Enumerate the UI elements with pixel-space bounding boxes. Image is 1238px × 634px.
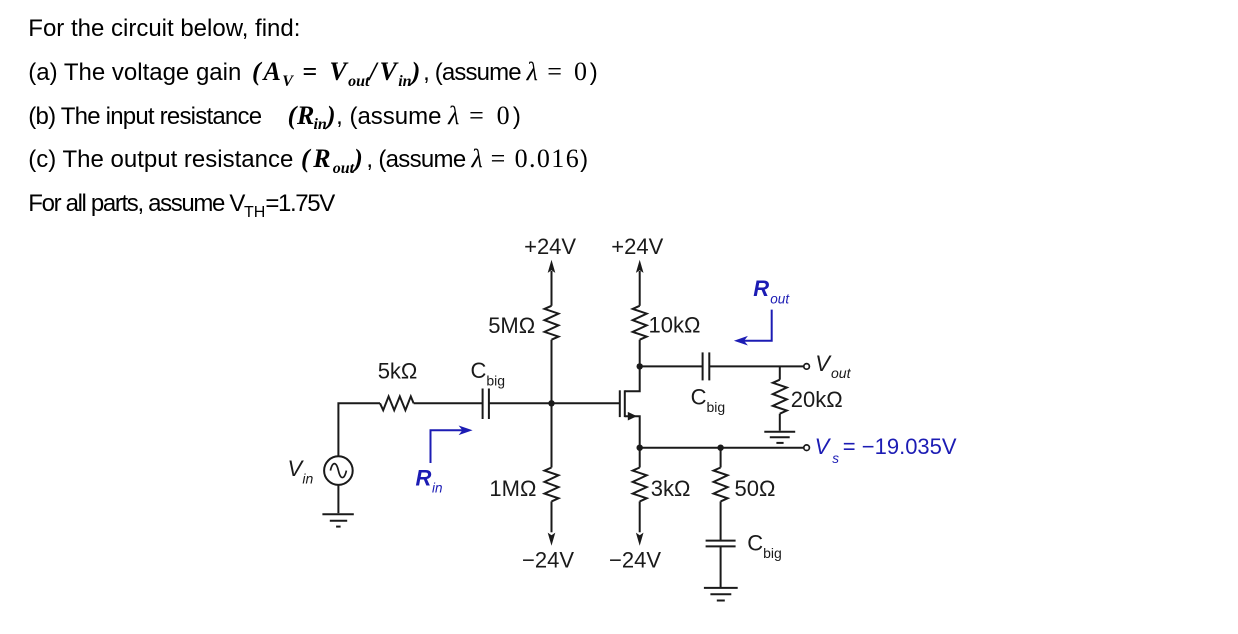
resistor 20kohm with leads: [773, 366, 787, 430]
wire Vin top to 5k resistor: [338, 403, 380, 456]
svg-text:−24V: −24V: [522, 548, 574, 573]
resistor 10kohm: [633, 306, 647, 340]
node drain: [637, 363, 643, 369]
problem statement line 5: [28, 190, 334, 227]
svg-text:50Ω: 50Ω: [735, 476, 776, 501]
problem statement line 1: [28, 15, 300, 43]
svg-text:Cbig: Cbig: [471, 358, 506, 389]
node gate junction: [548, 400, 554, 406]
wire input Cbig to MOSFET gate: [489, 402, 619, 404]
terminal Vout (open circle): [804, 364, 810, 370]
resistor 50ohm: [714, 468, 728, 502]
problem statement line 4: [28, 145, 588, 183]
svg-text:Vin: Vin: [288, 456, 314, 487]
wire 50ohm to bottom Cbig: [720, 501, 722, 540]
node 50ohm branch: [717, 445, 723, 451]
wire 5k to input Cbig: [414, 402, 483, 404]
supply arrow +24V left: [548, 260, 556, 306]
annotation Rout arrow (blue): [734, 310, 772, 346]
svg-text:3kΩ: 3kΩ: [651, 476, 691, 501]
resistor 5Mohm: [545, 306, 559, 340]
resistor 5kohm: [380, 396, 414, 410]
wire 50 node down: [720, 448, 722, 468]
supply arrow +24V right: [636, 260, 644, 306]
capacitor Cbig bottom (plates): [706, 541, 736, 547]
wire 10k to drain node: [639, 340, 641, 367]
wire Vin bottom to ground: [337, 485, 339, 513]
svg-text:−24V: −24V: [609, 548, 661, 573]
capacitor Cbig output (plates): [703, 352, 710, 380]
svg-text:+24V: +24V: [611, 234, 663, 259]
svg-text:5kΩ: 5kΩ: [378, 359, 418, 384]
ground bottom: [704, 588, 738, 601]
terminal Vs (open circle): [804, 445, 810, 451]
svg-text:Cbig: Cbig: [691, 385, 726, 416]
problem statement line 3: [28, 102, 521, 140]
annotation Rin arrow (blue): [431, 426, 473, 464]
transistor Q1 (NMOS): [620, 366, 640, 447]
wire 5M to 1M through gate node: [551, 340, 553, 468]
svg-text:10kΩ: 10kΩ: [649, 312, 701, 337]
node source: [637, 445, 643, 451]
svg-text:Rin: Rin: [416, 465, 443, 495]
svg-text:Vout: Vout: [815, 351, 851, 381]
wire output Cbig to Vout terminal: [709, 365, 803, 367]
wire bottom Cbig to ground: [720, 546, 722, 587]
wire source row to Vs terminal: [640, 447, 804, 449]
svg-text:5MΩ: 5MΩ: [488, 313, 535, 338]
source Vin (sine source circle): [324, 456, 353, 485]
supply arrow -24V right: [636, 501, 644, 545]
resistor 3kohm: [633, 468, 647, 502]
svg-text:1MΩ: 1MΩ: [489, 476, 536, 501]
svg-text:Vs= −19.035V: Vs= −19.035V: [815, 434, 957, 466]
wire drain node to output Cbig: [640, 365, 703, 367]
svg-text:Rout: Rout: [753, 276, 790, 307]
resistor 1Mohm: [545, 468, 559, 502]
supply arrow -24V left: [548, 501, 556, 545]
ground under 20k: [764, 432, 795, 443]
wire source node to 3k: [639, 448, 641, 468]
ground under Vin: [322, 514, 353, 526]
svg-text:+24V: +24V: [524, 234, 576, 259]
svg-text:20kΩ: 20kΩ: [791, 387, 843, 412]
capacitor Cbig input (plates): [483, 389, 489, 420]
problem statement line 2: [28, 58, 597, 96]
svg-text:Cbig: Cbig: [747, 531, 782, 562]
